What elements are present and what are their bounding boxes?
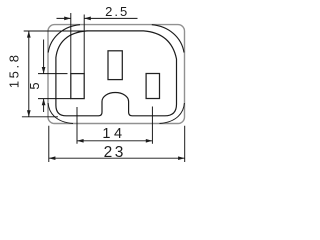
svg-text:14: 14: [102, 126, 125, 142]
svg-text:15.8: 15.8: [7, 52, 22, 88]
pin slot left: [71, 74, 84, 99]
dim 15.8 dimension line and arrows: [28, 31, 30, 117]
svg-text:5: 5: [27, 82, 42, 89]
bottom-right chamfer edge: [160, 103, 185, 124]
connector body outer outline: [48, 25, 185, 124]
dim 2.5 extension lines: [71, 13, 84, 74]
top-left chamfer edge: [48, 25, 80, 53]
pin slot right: [146, 74, 159, 99]
dim 14 dimension line and arrows: [77, 140, 152, 142]
pin slot center (earth): [108, 51, 122, 80]
dim 14 extension lines: [77, 107, 152, 144]
dim 23 dimension line and arrows: [49, 157, 185, 159]
dim 2.5 dimension line and arrows: [57, 17, 138, 19]
top-right chamfer edge: [152, 25, 184, 53]
connector face inner outline with bottom arch notch: [56, 31, 177, 116]
dim 23 extension lines: [49, 126, 185, 162]
dim 5 extension lines: [38, 74, 71, 99]
dim 15.8 extension lines: [22, 31, 88, 117]
svg-text:2.5: 2.5: [105, 4, 129, 19]
bottom-left chamfer edge: [48, 103, 73, 124]
dim 5 dimension line segments and arrows: [43, 40, 45, 113]
svg-text:23: 23: [104, 144, 126, 161]
